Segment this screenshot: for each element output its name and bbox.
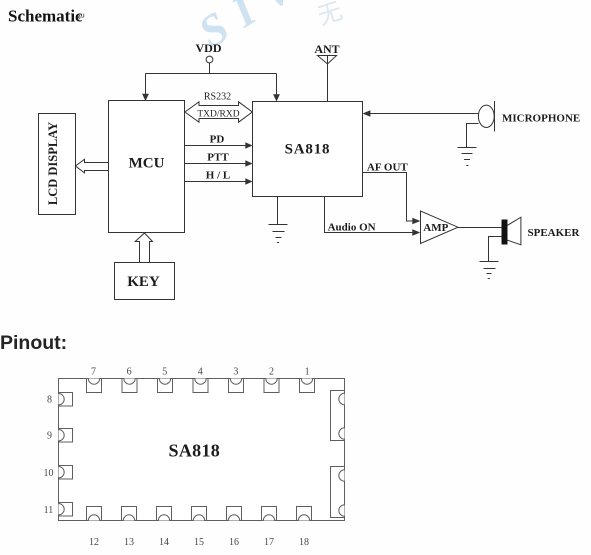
ground microphone [458, 147, 477, 149]
svg-text:1: 1 [305, 367, 310, 378]
svg-text:13: 13 [124, 537, 134, 548]
svg-text:11: 11 [44, 505, 54, 516]
svg-text:LCD DISPLAY: LCD DISPLAY [46, 122, 60, 205]
arrow RS232 double (hollow) [185, 102, 252, 122]
svg-text:Audio ON: Audio ON [328, 222, 376, 234]
box LCD DISPLAY [39, 114, 76, 215]
svg-text:14: 14 [159, 537, 169, 548]
pin pad top 6 [122, 379, 137, 393]
wire PTT [185, 163, 248, 165]
pin pad bottom 12 [87, 507, 102, 521]
pin pad left 9 [59, 429, 73, 443]
svg-text:3: 3 [233, 367, 238, 378]
pin pad top 7 [87, 379, 102, 393]
wire microphone to SA818 [368, 113, 479, 115]
castellation arc top 5 [159, 379, 170, 385]
castellation arc top 6 [124, 379, 135, 385]
svg-text:AF OUT: AF OUT [367, 162, 409, 174]
svg-text:VDD: VDD [196, 41, 222, 55]
arrowhead PD [245, 142, 252, 149]
pin pad bottom 13 [122, 507, 137, 521]
svg-text:7: 7 [91, 367, 96, 378]
pin pad bottom 15 [192, 507, 207, 521]
wire Audio ON [325, 197, 413, 233]
wire SA818 ground stem [277, 197, 279, 225]
castellation arc bottom 12 [88, 515, 99, 521]
wire microphone ground L [467, 124, 479, 148]
castellation arc left 10 [59, 467, 65, 478]
box MCU [109, 101, 185, 233]
svg-text:H / L: H / L [206, 170, 230, 182]
arrow MCU to LCD (hollow) [76, 159, 109, 173]
castellation arc top 3 [230, 379, 241, 385]
speaker symbol [502, 220, 508, 245]
wire VDD bus [146, 73, 277, 75]
arrowhead mic to SA818 [363, 110, 371, 116]
arrowhead Audio ON to AMP [412, 229, 420, 235]
svg-text:6: 6 [127, 367, 132, 378]
svg-text:MCU: MCU [129, 156, 165, 172]
pin pad bottom 16 [227, 507, 242, 521]
castellation arc top 4 [195, 379, 206, 385]
box KEY [115, 263, 175, 300]
svg-text:SPEAKER: SPEAKER [528, 227, 581, 239]
arrowhead VDD to SA818 [273, 94, 280, 101]
wire ANT stem [327, 56, 329, 102]
svg-text:TXD/RXD: TXD/RXD [197, 109, 239, 119]
ground speaker [480, 261, 499, 263]
castellation arc bottom 13 [123, 515, 134, 521]
svg-text:9: 9 [47, 431, 52, 442]
pin pad left 10 [59, 466, 73, 480]
wire PD [185, 145, 248, 147]
svg-text:18: 18 [299, 537, 309, 548]
castellation arc top 2 [266, 379, 277, 385]
castellation arc bottom 15 [193, 515, 204, 521]
castellation arc bottom 14 [158, 515, 169, 521]
pin pad top 2 [264, 379, 279, 393]
pinout package body [59, 379, 345, 521]
pin pad right shield upper [331, 391, 345, 441]
svg-text:15: 15 [194, 537, 204, 548]
svg-text:17: 17 [264, 537, 274, 548]
wire VDD to SA818 [276, 74, 278, 97]
pin pad right shield lower [331, 467, 345, 518]
arrow KEY to MCU (hollow) [135, 233, 152, 263]
castellation arc left 9 [59, 430, 65, 441]
pin numbers [44, 367, 310, 548]
svg-text:4: 4 [198, 367, 203, 378]
castellation arc right shield 2b [339, 505, 345, 516]
wire speaker ground L [489, 237, 502, 262]
svg-text:MICROPHONE: MICROPHONE [502, 113, 580, 125]
castellation arc right shield 2a [339, 470, 345, 481]
pin pad top 5 [158, 379, 173, 393]
svg-text:RS232: RS232 [204, 91, 231, 102]
svg-text:SA818: SA818 [285, 142, 331, 158]
castellation arc right shield 1b [339, 428, 345, 439]
castellation arc left 8 [59, 394, 65, 405]
watermark logo [190, 0, 346, 57]
ground SA818 [269, 224, 288, 226]
wire VDD stem [209, 63, 211, 74]
wire VDD to MCU [145, 74, 147, 96]
svg-text:无: 无 [315, 0, 346, 31]
arrowhead PTT [245, 160, 252, 167]
svg-text:10: 10 [44, 468, 54, 479]
castellation arc bottom 18 [298, 515, 309, 521]
pin pad left 11 [59, 503, 73, 517]
svg-text:8: 8 [47, 395, 52, 406]
pin pad bottom 14 [157, 507, 172, 521]
pin pad bottom 17 [262, 507, 277, 521]
svg-text:PTT: PTT [207, 152, 229, 164]
node VDD circle [206, 56, 213, 63]
svg-text:KEY: KEY [127, 274, 160, 290]
antenna ANT symbol [318, 56, 337, 65]
castellation arc bottom 16 [228, 515, 239, 521]
pin pad top 4 [193, 379, 208, 393]
pin pad top 1 [300, 379, 315, 393]
svg-text:Schematic: Schematic [8, 7, 83, 26]
wire AMP to speaker [458, 227, 502, 229]
castellation arc bottom 17 [263, 515, 274, 521]
svg-text:16: 16 [229, 537, 239, 548]
svg-text:5: 5 [162, 367, 167, 378]
svg-text:AMP: AMP [423, 222, 448, 234]
svg-text:PD: PD [210, 134, 225, 146]
arrowhead AF OUT to AMP [412, 218, 420, 224]
pin pad bottom 18 [297, 507, 312, 521]
wire AF OUT [363, 173, 413, 222]
svg-text:SA818: SA818 [169, 441, 221, 461]
pin pad top 3 [229, 379, 244, 393]
svg-text:ANT: ANT [314, 42, 339, 56]
wire H/L [185, 181, 248, 183]
castellation arc left 11 [59, 504, 65, 515]
svg-text:Pinout:: Pinout: [0, 332, 67, 354]
arrowhead H/L [245, 178, 252, 185]
castellation arc right shield 1a [339, 393, 345, 404]
castellation arc top 1 [301, 379, 312, 385]
microphone symbol [478, 105, 494, 127]
box SA818 [253, 102, 363, 197]
svg-text:↵: ↵ [77, 12, 86, 24]
arrowhead VDD to MCU [142, 94, 149, 101]
svg-text:12: 12 [89, 537, 99, 548]
castellation arc top 7 [88, 379, 99, 385]
svg-text:2: 2 [269, 367, 274, 378]
pin pad left 8 [59, 393, 73, 407]
amplifier AMP [421, 211, 459, 244]
